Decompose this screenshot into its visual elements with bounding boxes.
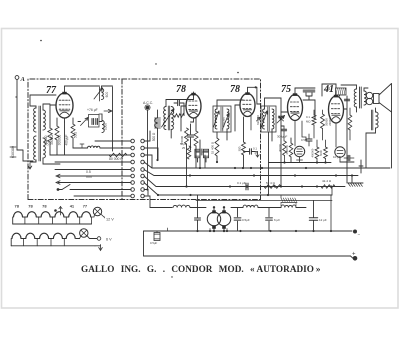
svg-text:+: +	[352, 252, 356, 258]
svg-text:400μμF: 400μμF	[65, 134, 69, 145]
svg-text:+76 μF: +76 μF	[87, 108, 98, 112]
svg-text:A.C.C.: A.C.C.	[143, 101, 153, 105]
svg-text:6 μF: 6 μF	[274, 218, 280, 222]
svg-text:0.5: 0.5	[86, 170, 91, 174]
svg-text:A: A	[20, 76, 26, 83]
svg-text:300μμF: 300μμF	[277, 135, 287, 139]
svg-text:30000: 30000	[44, 135, 48, 144]
svg-text:78: 78	[28, 204, 33, 209]
svg-text:−: −	[358, 232, 361, 237]
svg-text:630380: 630380	[11, 146, 15, 158]
svg-text:77: 77	[46, 85, 57, 96]
svg-text:77: 77	[83, 204, 88, 209]
svg-text:1000: 1000	[104, 123, 108, 130]
svg-text:12 μF: 12 μF	[319, 218, 327, 222]
svg-text:600: 600	[105, 92, 109, 98]
svg-text:10 μF: 10 μF	[333, 155, 341, 159]
svg-text:4500 Ω: 4500 Ω	[285, 144, 289, 154]
svg-text:300000: 300000	[58, 134, 62, 145]
svg-text:78: 78	[15, 204, 20, 209]
svg-text:40000: 40000	[278, 144, 282, 152]
svg-text:MΩ: MΩ	[306, 120, 310, 124]
svg-text:GALLO ING. G. . CONDOR MO: GALLO ING. G. . CONDOR MOD. « AUTORADIO …	[81, 264, 321, 274]
svg-text:630380: 630380	[256, 115, 260, 125]
svg-text:12 V: 12 V	[106, 218, 114, 222]
svg-text:630380: 630380	[222, 117, 226, 127]
svg-text:42-4 Ω: 42-4 Ω	[322, 179, 332, 183]
svg-text:0.5μF: 0.5μF	[150, 241, 157, 245]
svg-text:0.1: 0.1	[306, 115, 310, 119]
svg-text:78: 78	[42, 204, 47, 209]
svg-text:0.5μF: 0.5μF	[242, 218, 250, 222]
svg-text:50Ω: 50Ω	[74, 131, 78, 138]
svg-text:400000: 400000	[311, 148, 315, 157]
svg-text:25: 25	[182, 146, 186, 150]
svg-text:6 V: 6 V	[106, 238, 112, 242]
svg-text:mm: mm	[86, 175, 92, 179]
svg-text:50000: 50000	[325, 118, 329, 126]
svg-text:75: 75	[281, 84, 291, 95]
svg-text:B: B	[327, 86, 330, 91]
svg-text:300: 300	[238, 146, 242, 151]
svg-text:0.1 μF: 0.1 μF	[237, 181, 246, 185]
svg-text:5000: 5000	[319, 150, 323, 156]
svg-text:0.5M: 0.5M	[301, 138, 308, 142]
svg-text:500 Ω: 500 Ω	[152, 132, 156, 141]
svg-text:78: 78	[176, 84, 186, 95]
svg-text:78: 78	[230, 84, 240, 95]
svg-text:80 000 Ω: 80 000 Ω	[109, 157, 123, 161]
svg-text:41: 41	[70, 204, 75, 209]
svg-text:52 400 Ω: 52 400 Ω	[211, 141, 215, 154]
svg-text:52 4 Ω: 52 4 Ω	[266, 181, 276, 185]
svg-text:0.1: 0.1	[253, 147, 257, 151]
